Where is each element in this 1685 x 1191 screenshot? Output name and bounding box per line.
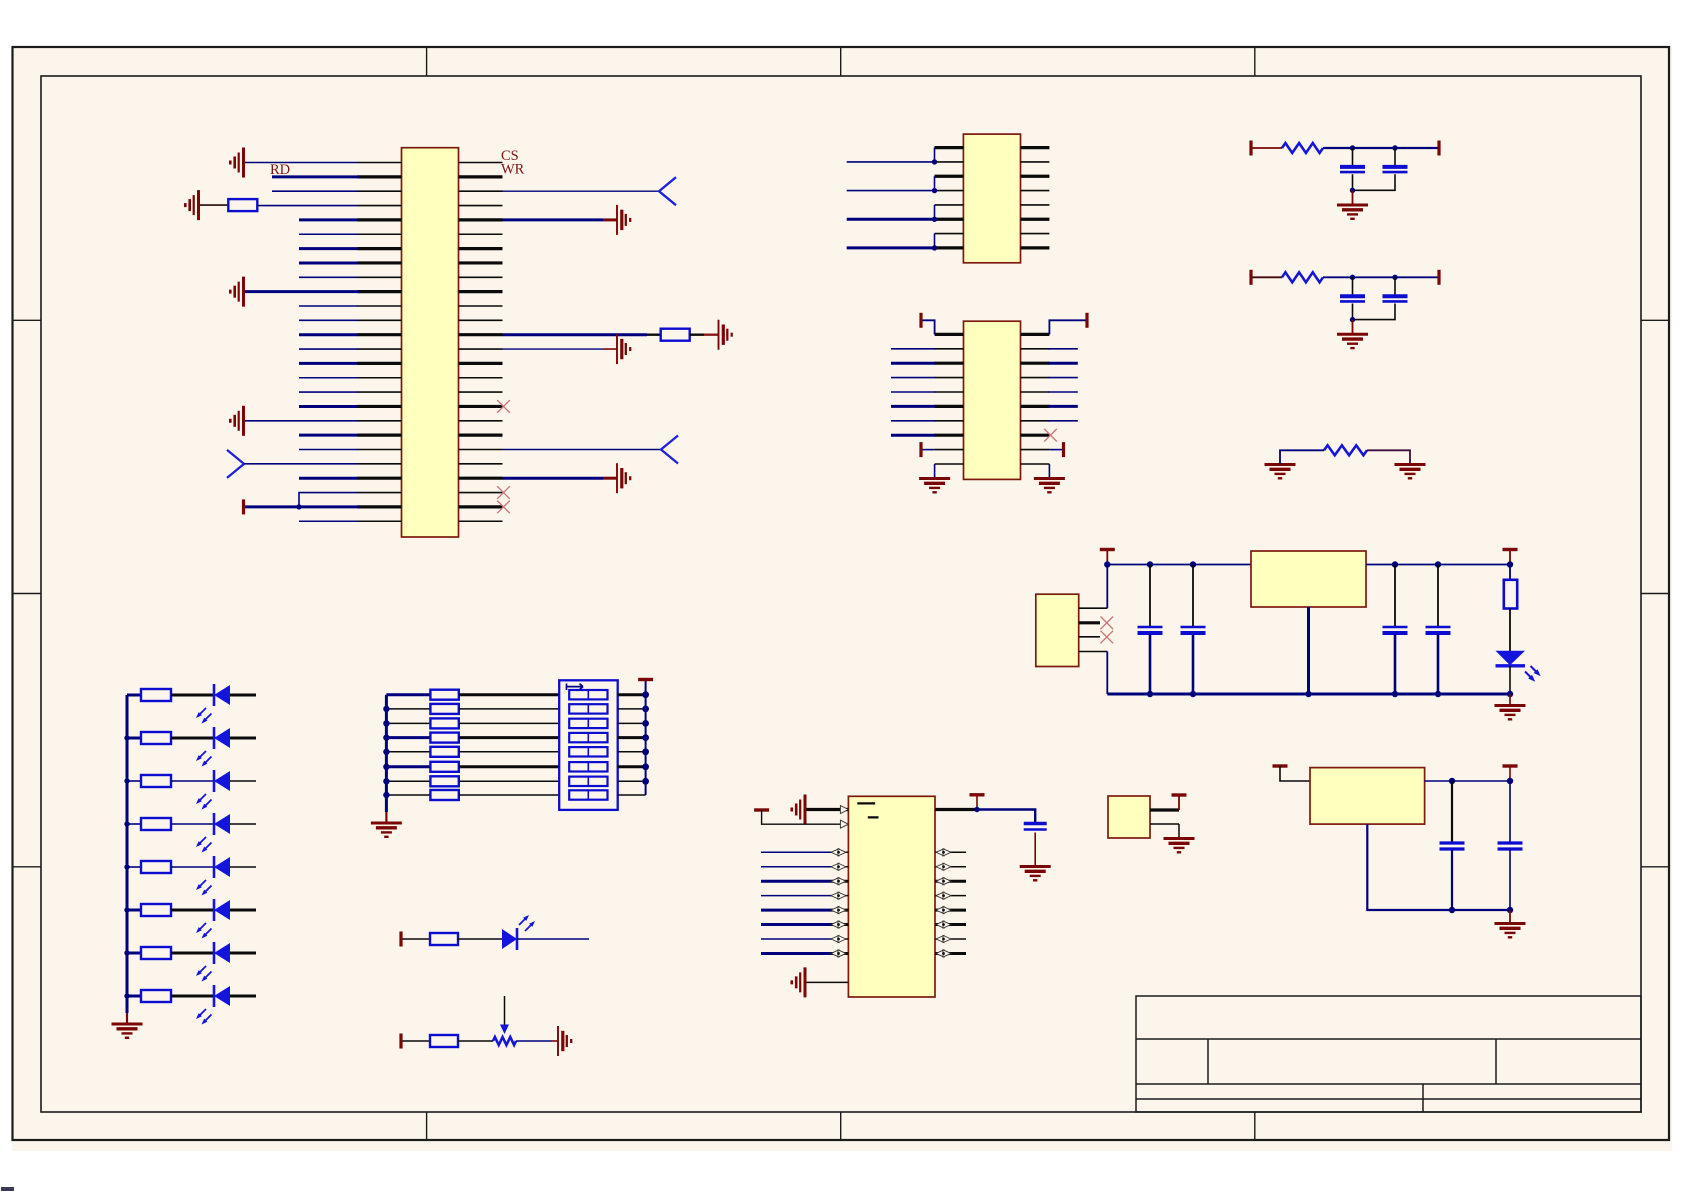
wire T14 to resistor R24 <box>403 1040 431 1042</box>
wire to ground <box>1352 320 1354 334</box>
junction node <box>124 864 129 869</box>
U2 pin 16 (right) <box>1021 246 1050 249</box>
wire C10 down <box>1451 850 1453 911</box>
wire rail to capacitor C7 <box>1394 565 1396 627</box>
wire U2 net 3 <box>847 218 935 221</box>
wire to U3 pin 5 <box>891 391 936 393</box>
ground GND9 (earth) <box>919 479 950 493</box>
U2 pin 1 (left) <box>935 146 964 149</box>
wire bus to resistor R22 <box>386 794 430 796</box>
LED D1 <box>214 684 230 706</box>
U1 pin 40 (right) <box>459 348 503 350</box>
U1 pin 16 (left) <box>358 377 402 379</box>
U5 data pin 17 (right) <box>935 909 966 912</box>
regulator U4 body <box>1251 551 1366 607</box>
wire C8 to ground rail <box>1437 635 1440 695</box>
DIP switch S1 actuator mark <box>567 684 584 691</box>
U5 pin 12 (right, output) <box>935 808 977 811</box>
U1 pin 44 (right) <box>459 405 503 408</box>
wire T15 to U5 pin2 <box>762 810 849 824</box>
resistor R8 <box>141 732 171 744</box>
wire bus to resistor R9 <box>127 780 141 782</box>
no-connect X on U3 pin18 <box>1044 429 1057 442</box>
U3 pin 1 (left) <box>935 333 964 336</box>
ground GND23 (earth) <box>1495 924 1526 938</box>
U3 pin 12 (right) <box>1021 348 1050 350</box>
wire T13 to resistor R23 <box>403 938 431 940</box>
wire U2 net 4 <box>847 246 935 249</box>
resistor R9 <box>141 775 171 787</box>
wire J1 pin4 down to ground rail <box>1106 652 1108 695</box>
U1 pin 37 (right) <box>459 305 503 307</box>
junction node <box>1392 275 1397 280</box>
IC U1 body <box>402 148 459 537</box>
ground GND10 (earth) <box>1034 479 1065 493</box>
wire to U3 pin 8 <box>891 434 936 437</box>
no-connect X on J1 pin2 <box>1101 617 1114 630</box>
capacitor C1 <box>1340 167 1365 172</box>
wire T2 to U3 pin1 <box>923 320 935 334</box>
resistor R13 <box>141 947 171 959</box>
title block table <box>1136 996 1641 1112</box>
wire C9 to GND21 <box>1034 833 1036 867</box>
ground GND11 (earth) <box>1337 205 1368 219</box>
DIP switch element 3 <box>569 719 607 728</box>
wire T3 to U3 pin9 <box>923 449 935 451</box>
junction node <box>642 763 649 770</box>
wire +V rail (left) <box>1107 564 1251 566</box>
wire RW1 to GND18 <box>516 1040 552 1042</box>
U5 pin 9 (left) <box>831 938 849 940</box>
capacitor C6 <box>1181 627 1206 633</box>
wire S1 element 6 to bus <box>618 765 646 768</box>
wire bus to resistor R15 <box>386 693 430 696</box>
U1 pin 31 (right) <box>459 218 503 221</box>
wire to U1 pin 20 <box>299 434 358 437</box>
wire U2 net 1 <box>847 161 935 163</box>
potentiometer RW1 (zigzag) <box>493 1037 516 1045</box>
U3 pin 18 (right) <box>1021 434 1050 437</box>
wire R18 to switch S1 <box>459 736 559 739</box>
wire to U1 pin 6 <box>299 233 358 235</box>
wire to GND23 <box>1509 910 1511 923</box>
wire C11 down <box>1509 850 1511 911</box>
wire R21 to switch S1 <box>459 780 559 782</box>
resistor network bus wire <box>385 695 388 812</box>
junction node <box>1449 778 1455 784</box>
junction node <box>124 821 129 826</box>
wire bus to resistor R12 <box>127 909 141 912</box>
power terminal T19 <box>1503 764 1518 767</box>
LED D6 emission arrows <box>196 923 212 939</box>
DIP switch S1 body <box>559 680 618 810</box>
U5 pin 4 (left) <box>831 866 849 868</box>
resistor R21 <box>430 776 458 786</box>
wire to U3 pin 3 <box>891 362 936 365</box>
power terminal T7 <box>1249 270 1252 285</box>
wire to U3 pin 2 <box>891 348 936 350</box>
wire to U1 pin 8 <box>299 261 358 264</box>
wire down to capacitor C3 <box>1352 277 1354 295</box>
U5 pin 10 (left) <box>831 952 849 955</box>
LED D6 <box>214 899 230 921</box>
U2 pin 13 (right) <box>1021 204 1050 206</box>
U3 pin 9 (left) <box>935 449 964 451</box>
wire GND13 to resistor R5 <box>1280 450 1324 464</box>
U5 data pin 15 (right) <box>935 880 966 883</box>
U1 pin 25 (left) <box>358 505 402 508</box>
U5 internal marks <box>857 803 878 817</box>
resistor R10 <box>141 818 171 830</box>
U1 pin 13 (left) <box>358 333 402 336</box>
U1 pin 38 (right) <box>459 319 503 321</box>
LED D7 emission arrows <box>196 966 212 982</box>
wire to U1 pin 13 <box>299 333 358 336</box>
capacitor C3 <box>1340 296 1365 301</box>
U1 pin 49 (right) <box>459 477 503 480</box>
U1 pin 20 (left) <box>358 434 402 437</box>
junction node <box>932 188 937 193</box>
resistor R15 <box>430 690 458 700</box>
U1 pin 3 (left) <box>358 190 402 192</box>
junction node <box>1147 561 1153 567</box>
wire to capacitor C11 <box>1509 781 1511 843</box>
power terminal T9 <box>1437 270 1440 285</box>
wire U6 output <box>1425 780 1510 782</box>
wire bus ground stub <box>385 812 387 822</box>
U3 pin 3 (left) <box>935 362 964 365</box>
junction node <box>932 217 937 222</box>
junction node <box>383 749 389 755</box>
U1 pin 18 (left) <box>358 405 402 408</box>
ground GND19 (signal ground) <box>792 795 805 825</box>
wire S1 element 2 to bus <box>618 708 646 710</box>
wire T6 to resistor R3 <box>1253 147 1283 149</box>
U1 pin 33 (right) <box>459 247 503 250</box>
wire to U5 data pin 4 (left) <box>761 866 831 868</box>
power terminal T11 <box>1503 548 1518 551</box>
U2 pin 6 (left) <box>935 218 964 221</box>
U1 pin 36 (right) <box>459 290 503 293</box>
LED D3 <box>214 770 230 792</box>
wire U1 pin31 to GND5 <box>503 218 604 221</box>
power terminal T18 <box>1273 764 1288 767</box>
wire to U5 data pin 6 (left) <box>761 895 831 897</box>
U1 pin 28 (right) <box>459 175 503 178</box>
junction node <box>1507 691 1513 697</box>
U2 pin 3 (left) <box>935 175 964 178</box>
off-sheet connector (output arrow) <box>661 436 678 464</box>
wire to ground <box>1352 190 1354 204</box>
junction node <box>383 734 389 740</box>
U2 pin 11 (right) <box>1021 175 1050 178</box>
junction node <box>642 720 649 727</box>
wire rail to resistor R6 <box>1509 565 1511 580</box>
wire bus to resistor R18 <box>386 736 430 739</box>
U1 pin 48 (right) <box>459 463 503 465</box>
ground rail wire <box>1107 693 1510 696</box>
wire T18 to U6 <box>1280 766 1310 781</box>
wire X1 pin2 to GND22 <box>1178 824 1180 838</box>
U1 pin 1 (left) <box>358 162 402 164</box>
resistor R4 (zigzag) <box>1282 272 1323 282</box>
wire C5 to ground rail <box>1149 635 1152 695</box>
ground GND2 (signal ground) <box>185 190 198 220</box>
wire to U1 pin 11 <box>299 305 358 307</box>
junction node <box>124 950 129 955</box>
wire R14 to LED D8 <box>171 995 214 998</box>
wire capacitor join <box>1353 174 1396 190</box>
U1 pin 4 (left) <box>358 205 402 207</box>
U1 pin 10 (left) <box>358 290 402 293</box>
wire bus to resistor R11 <box>127 866 141 868</box>
resistor R24 <box>430 1035 458 1047</box>
regulator U6 body <box>1310 768 1425 825</box>
junction node <box>642 706 649 713</box>
LED D10 emission arrows <box>519 915 535 931</box>
wire S1 element 8 to bus <box>618 794 646 796</box>
wire U6 ground pin <box>1367 824 1510 910</box>
U1 pin 52 (right) <box>459 520 503 522</box>
junction node <box>642 748 649 755</box>
wire R3 to terminal <box>1323 147 1439 149</box>
wire U3 pin19 to T5 <box>1049 449 1062 451</box>
power terminal T16 <box>970 793 985 796</box>
U1 pin 11 (left) <box>358 305 402 307</box>
wire from U3 pin 15 <box>1048 391 1077 393</box>
wire LED D8 anode <box>230 995 256 998</box>
wire RD to U1 pin2 <box>272 175 359 178</box>
wire branch to U1 pin24 <box>299 493 358 507</box>
wire U5 pin12 to capacitor C9 <box>977 810 1035 823</box>
wire GND4 to U1 pin19 <box>245 420 358 422</box>
wire to U1 pin 18 <box>299 405 358 408</box>
U1 pin 19 (left) <box>358 420 402 422</box>
wire to U5 data pin 9 (left) <box>761 938 831 940</box>
wire LED D4 anode <box>230 823 256 825</box>
U1 pin 50 (right) <box>459 492 503 494</box>
U1 pin 2 (left) <box>358 175 402 178</box>
wire bus to resistor R8 <box>127 737 141 740</box>
ground GND13 (earth) <box>1265 465 1296 479</box>
wire R22 to switch S1 <box>459 794 559 796</box>
U1 pin 12 (left) <box>358 319 402 321</box>
wire to U5 data pin 7 (left) <box>761 909 831 912</box>
corner mark <box>1 1187 14 1191</box>
resistor R22 <box>430 790 458 800</box>
potentiometer RW1 wiper arrow <box>500 996 509 1034</box>
junction node <box>296 504 301 509</box>
J1 pin 2 <box>1079 621 1100 624</box>
wire U1 pin1 to GND1 <box>245 162 358 164</box>
wire U4 ground pin down <box>1307 607 1310 694</box>
ground GND14 (earth) <box>1395 465 1426 479</box>
wire R2 to GND6 <box>690 334 704 336</box>
wire R9 to LED D3 <box>171 780 214 782</box>
resistor R17 <box>430 718 458 728</box>
junction node <box>1392 561 1398 567</box>
right bus wire of switch network <box>645 681 647 795</box>
U2 pin 2 (left) <box>935 161 964 163</box>
wire R24 to potentiometer RW1 <box>458 1040 493 1042</box>
U2 pin 15 (right) <box>1021 233 1050 235</box>
wire rail to capacitor C5 <box>1149 565 1151 627</box>
wire to U1 pin 14 <box>299 348 358 350</box>
wire bus to resistor R10 <box>127 823 141 825</box>
wire bus to resistor R7 <box>127 694 141 697</box>
wire to U3 pin 6 <box>891 405 936 408</box>
resistor R18 <box>430 733 458 743</box>
wire S1 element 1 to bus <box>618 693 646 696</box>
X1 pin 1 <box>1150 808 1179 811</box>
wire to U1 pin 15 <box>299 362 358 365</box>
wire to U1 pin 21 <box>299 449 358 451</box>
junction node <box>642 778 649 785</box>
wire to U1 pin 23 <box>299 477 358 480</box>
wire T19 stem <box>1509 766 1511 781</box>
U1 pin 42 (right) <box>459 377 503 379</box>
resistor R12 <box>141 904 171 916</box>
U1 pin 22 (left) <box>358 463 402 465</box>
wire GND2 to resistor R1 <box>200 204 228 206</box>
connector J1 body <box>1036 594 1079 666</box>
wire D9 to ground rail <box>1509 666 1511 694</box>
U3 pin 13 (right) <box>1021 362 1050 365</box>
resistor R2 <box>661 329 690 341</box>
junction node <box>974 807 979 812</box>
junction node <box>1104 561 1110 567</box>
wire R13 to LED D7 <box>171 952 214 955</box>
J1 pin 4 <box>1079 651 1108 653</box>
junction node <box>1435 561 1441 567</box>
U3 pin 2 (left) <box>935 348 964 350</box>
wire U1 pin40 to GND7 <box>503 348 604 350</box>
U2 pin 5 (left) <box>935 204 964 206</box>
U1 pin 34 (right) <box>459 261 503 264</box>
wire from U3 pin 14 <box>1048 377 1077 379</box>
wire U1 pin47 to off-sheet arrow <box>503 449 662 451</box>
U5 data pin 16 (right) <box>935 895 966 897</box>
U5 pin 8 (left) <box>831 923 849 926</box>
ground GND22 (earth) <box>1164 839 1195 853</box>
junction node <box>1507 778 1513 784</box>
U1 pin 21 (left) <box>358 449 402 451</box>
ground GND6 (signal ground) <box>719 320 732 350</box>
DIP switch element 7 <box>569 777 607 786</box>
LED D5 <box>214 856 230 878</box>
resistor R19 <box>430 747 458 757</box>
wire down to capacitor C4 <box>1394 277 1396 295</box>
U3 pin 14 (right) <box>1021 377 1050 379</box>
wire GND19 to U5 pin1 <box>807 808 849 811</box>
wire from U3 pin 12 <box>1048 348 1077 350</box>
resistor R5 (zigzag) <box>1324 445 1367 455</box>
DIP switch element 8 <box>569 790 607 799</box>
capacitor C11 <box>1498 843 1523 849</box>
junction node <box>383 764 389 770</box>
wire to U1 pin 17 <box>299 391 358 393</box>
junction node <box>1350 145 1355 150</box>
no-connect X on U1 pin50 <box>497 486 510 499</box>
U2 pin 10 (right) <box>1021 161 1050 163</box>
U1 pin 29 (right) <box>459 190 503 192</box>
LED D9 emission arrows <box>1525 666 1541 682</box>
U1 pin 47 (right) <box>459 449 503 451</box>
wire capacitor join <box>1353 304 1396 320</box>
U1 pin 7 (left) <box>358 247 402 250</box>
wire to U1 pin 12 <box>299 319 358 321</box>
junction node <box>1190 691 1196 697</box>
wire X1 pin1 to T17 <box>1178 797 1180 811</box>
capacitor C4 <box>1383 296 1408 301</box>
power terminal T14 <box>399 1034 402 1049</box>
IC U2 body <box>963 134 1020 263</box>
wire from U3 pin 16 <box>1048 405 1077 408</box>
wire bus ground stub <box>126 1013 128 1023</box>
U2 pin 9 (right) <box>1021 146 1050 149</box>
U1 pin 27 (right) <box>459 162 503 164</box>
junction node <box>1449 907 1455 913</box>
wire to U5 data pin 3 (left) <box>761 851 831 853</box>
U2 pin 14 (right) <box>1021 218 1050 221</box>
wire bus to resistor R20 <box>386 765 430 768</box>
U1 pin 51 (right) <box>459 505 503 508</box>
capacitor C7 <box>1383 627 1408 633</box>
U1 pin 14 (left) <box>358 348 402 350</box>
U1 pin 32 (right) <box>459 233 503 235</box>
resistor R11 <box>141 861 171 873</box>
U1 pin 5 (left) <box>358 218 402 221</box>
junction node <box>383 706 389 712</box>
capacitor C5 <box>1138 627 1163 633</box>
wire LED D10 cathode <box>517 938 589 940</box>
ground GND7 (signal ground) <box>617 334 630 364</box>
J1 pin 1 <box>1079 607 1108 609</box>
power terminal T12 <box>638 678 653 681</box>
U5 data pin 20 (right) <box>935 952 966 955</box>
wire to U5 data pin 8 (left) <box>761 923 831 926</box>
wire U3 pin10 to GND9 <box>934 464 936 477</box>
no-connect X on J1 pin3 <box>1101 631 1114 644</box>
U1 pin 6 (left) <box>358 233 402 235</box>
wire R5 to GND14 <box>1367 450 1410 464</box>
wire R20 to switch S1 <box>459 765 559 768</box>
wire T10 stem <box>1106 550 1108 565</box>
svg-text:WR: WR <box>501 162 525 178</box>
power terminal T8 <box>1437 141 1440 156</box>
U1 pin 23 (left) <box>358 477 402 480</box>
resistor R3 (zigzag) <box>1282 143 1323 153</box>
wire R12 to LED D6 <box>171 909 214 912</box>
wire to U3 pin 4 <box>891 377 936 379</box>
U3 pin 11 (right) <box>1021 333 1050 336</box>
wire bus to resistor R19 <box>386 751 430 753</box>
U1 pin 8 (left) <box>358 261 402 264</box>
U1 pin 35 (right) <box>459 276 503 278</box>
power terminal T17 <box>1172 793 1187 796</box>
DIP switch element 2 <box>569 704 607 713</box>
power terminal T1 <box>242 499 245 514</box>
U1 pin 30 (right) <box>459 205 503 207</box>
U2 pin 12 (right) <box>1021 190 1050 192</box>
wire R7 to LED D1 <box>171 694 214 697</box>
wire to U1 pin 5 <box>299 218 358 221</box>
LED D4 emission arrows <box>196 837 212 853</box>
wire R1 to U1 pin4 <box>257 205 357 207</box>
LED D1 emission arrows <box>196 708 212 724</box>
U5 pin 3 (left) <box>831 851 849 853</box>
junction node <box>383 778 389 784</box>
